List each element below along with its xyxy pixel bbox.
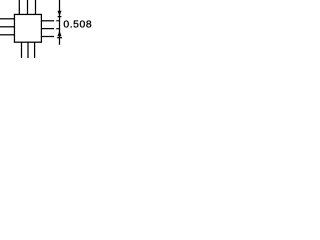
extension tick pin2	[56, 28, 60, 30]
top pin 3	[35, 0, 37, 14]
bottom pin 3	[34, 42, 36, 58]
left pin 2	[0, 26, 14, 28]
dimension tick lower span end	[57, 37, 62, 39]
dimension vertical line	[59, 0, 61, 45]
dimension arrow down	[58, 11, 62, 16]
IC body U1 outline	[14, 14, 41, 42]
top pin 1	[18, 0, 20, 14]
dimension tick upper span end	[58, 16, 62, 18]
IC footprint dimension drawing, 92x58	[0, 0, 92, 58]
extension tick pin1	[56, 20, 60, 22]
right pin 1	[41, 20, 54, 22]
dimension arrow up	[58, 30, 62, 36]
right pin 3	[41, 36, 54, 38]
left pin 1	[0, 18, 14, 20]
right pin 2	[41, 28, 54, 30]
svg-text:0.508: 0.508	[63, 20, 92, 31]
background	[0, 0, 92, 58]
bottom pin 1	[21, 42, 23, 58]
top pin 2	[27, 0, 29, 14]
bottom pin 2	[27, 42, 29, 58]
left pin 3	[0, 34, 14, 36]
